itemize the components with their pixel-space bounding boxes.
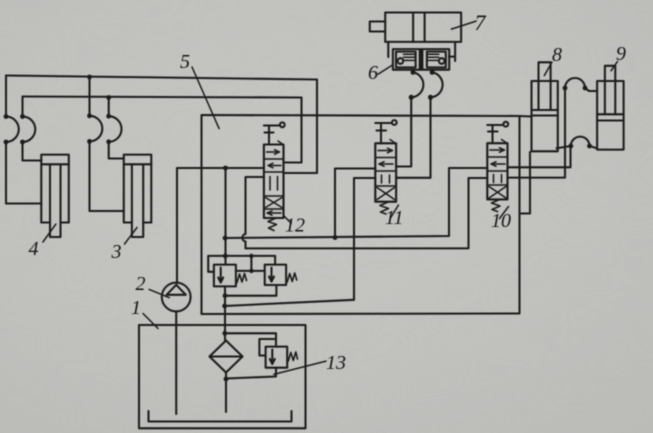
pilot check valve block 6	[393, 49, 449, 72]
wire: valve 13 pilot loop	[259, 339, 276, 356]
svg-text:8: 8	[552, 44, 562, 66]
wire: inner bus left drop to hose	[21, 97, 23, 117]
wire: relief return loop	[225, 287, 276, 296]
wire: valve 10 upper right port to lower hose arc	[508, 146, 571, 167]
wire: pump pressure line to valve 12 left port	[177, 168, 264, 283]
svg-text:11: 11	[385, 207, 404, 229]
wire: pressure riser down to relief block	[224, 168, 226, 265]
hose arc to cylinder 4 upper port	[23, 117, 36, 143]
filter	[210, 341, 243, 373]
spring of valve 12	[268, 218, 277, 231]
wire: hose to cylinder 3 upper port	[109, 142, 124, 159]
wire: relief pilot tie line	[236, 256, 265, 271]
label 4 leader	[43, 224, 56, 242]
wire: hose to cylinder 4 lower port	[6, 142, 41, 204]
wire: return manifold 5 loop	[202, 115, 520, 314]
wire: drain line B to valve 10	[246, 178, 488, 248]
svg-text:10: 10	[491, 210, 511, 232]
spring of valve 11	[380, 202, 389, 214]
wire: inner bus drop to cylinder 3 hose	[108, 98, 110, 117]
wire: upper hose to cylinder 9	[585, 88, 597, 91]
cylinder 8	[532, 62, 558, 151]
label 2 leader	[149, 289, 169, 297]
svg-text:1: 1	[131, 297, 141, 319]
bracket under cylinder 7	[388, 42, 455, 61]
directional valve 12 body	[264, 145, 284, 219]
label 11 leader	[391, 205, 399, 217]
relief valve 13	[266, 347, 298, 368]
wire: valve 11 drain to riser	[225, 300, 355, 306]
relief valve right	[265, 265, 297, 285]
cylinder 7	[370, 13, 461, 42]
hose arc to cylinder 4 lower port	[6, 117, 19, 143]
svg-text:12: 12	[285, 215, 305, 237]
label 6 leader	[378, 65, 393, 75]
cylinder 9	[597, 66, 624, 150]
svg-text:5: 5	[180, 51, 190, 73]
label 8 leader	[544, 62, 552, 76]
wire: outer bus drop to cylinder 3 hose	[88, 77, 90, 116]
svg-text:2: 2	[136, 273, 146, 295]
wire: inner top bus	[23, 97, 302, 98]
cylinder 3	[124, 155, 152, 237]
cylinder 4	[41, 155, 69, 237]
pump 2	[162, 283, 191, 414]
wire: filter to tank bottom	[225, 373, 227, 413]
lever of valve 10	[487, 122, 508, 143]
directional valve 11 body	[375, 143, 396, 201]
hose from block 6 left to valve 11 line	[411, 72, 423, 97]
lever of valve 11	[375, 120, 396, 143]
pressure riser through relief block down to filter	[224, 286, 226, 340]
svg-text:3: 3	[111, 241, 122, 263]
wire: hose line to valve 11 upper right port	[396, 97, 411, 166]
wire: valve 11 lower left port drop	[354, 178, 375, 300]
svg-text:9: 9	[616, 43, 626, 65]
wire: feed to relief valve 13	[225, 333, 276, 346]
hose arc between cylinders 8 and 9 lower	[571, 137, 590, 146]
wire: valve 12 lower left port drop	[242, 177, 264, 248]
label 7 leader	[451, 21, 476, 29]
wire: relief feed branches	[208, 256, 275, 272]
hose arc to cylinder 3 upper port	[109, 116, 122, 142]
spring of valve 10	[492, 200, 501, 212]
label 12 leader	[284, 216, 292, 224]
directional valve 10 body	[487, 143, 507, 199]
wire: hose to cylinder 4 upper port	[23, 142, 42, 161]
label 1 leader	[143, 314, 158, 329]
lever of valve 12	[264, 122, 285, 144]
label 9 leader	[611, 62, 617, 71]
wire: valve 10 lower right port to upper hose arc	[508, 88, 566, 178]
hose from block 6 right to valve 11 line	[431, 72, 443, 97]
relief valve left	[214, 265, 247, 287]
wire: cylinder 8 to lower hose	[557, 146, 571, 148]
hose arc to cylinder 3 lower port	[90, 116, 103, 142]
wire: outer bus left drop to hose	[5, 76, 7, 117]
svg-text:7: 7	[475, 10, 487, 35]
hose arc between cylinders 8 and 9 upper	[565, 78, 585, 88]
wire: hose line to valve 11 lower right port	[396, 97, 430, 178]
label 13 leader	[274, 361, 326, 374]
label 3 leader	[125, 228, 138, 245]
wire: lower hose to cylinder 9	[590, 146, 598, 148]
wire: inner bus right drop to valve 12 upper right port	[284, 98, 302, 163]
wire: valve 11 upper left port drop to line A	[335, 169, 375, 238]
wire: pressure line A to valve 10	[225, 168, 487, 238]
svg-text:4: 4	[29, 238, 39, 260]
svg-text:6: 6	[368, 62, 378, 84]
label 10 leader	[500, 207, 509, 219]
wire: outer top bus	[6, 76, 317, 80]
svg-text:13: 13	[326, 352, 346, 374]
tank 1	[139, 325, 306, 428]
wire: outer bus right drop to valve 12 lower right port	[284, 80, 317, 174]
wire: cylinder 8 rod-end drain	[520, 152, 531, 214]
wire: hose to cylinder 3 lower port	[90, 141, 124, 211]
label 5 leader	[192, 67, 219, 129]
wire: valve 13 return to riser	[226, 368, 276, 379]
wire: manifold 5 branch to cylinder 8 head port	[520, 115, 532, 118]
